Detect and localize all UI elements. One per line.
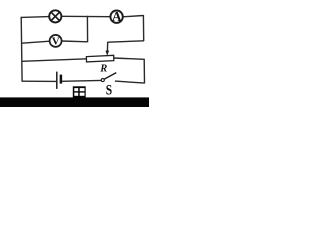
wire right vertical upper (ammeter branch down) xyxy=(142,15,144,41)
rheostat R body xyxy=(86,55,113,62)
svg-text:R: R xyxy=(99,63,107,74)
wire rheostat left xyxy=(22,59,87,62)
svg-text:S: S xyxy=(106,82,112,98)
rheostat wiper arrow xyxy=(106,51,110,56)
lamp L (circle with X) xyxy=(49,10,61,22)
wire bottom-left (corner to battery) xyxy=(22,80,57,82)
wire voltmeter right xyxy=(61,40,87,43)
switch S pivot xyxy=(101,79,104,82)
wire ammeter to top-right corner xyxy=(123,16,143,17)
switch S blade xyxy=(104,73,116,80)
node A (voltmeter branch junction on top wire) xyxy=(87,16,89,17)
wire wiper vertical xyxy=(106,42,108,52)
ammeter A xyxy=(110,9,122,24)
battery long plate (+) xyxy=(56,72,58,89)
bottom black bar xyxy=(0,97,149,107)
wire horizontal to wiper xyxy=(108,41,144,42)
wire top-left (corner to lamp) xyxy=(21,16,49,19)
wire switch right xyxy=(115,81,145,83)
wire voltmeter branch vertical xyxy=(86,16,88,42)
wire battery to switch xyxy=(62,79,102,82)
svg-text:A: A xyxy=(112,9,122,24)
watermark grid icon xyxy=(73,86,86,98)
voltmeter V xyxy=(50,35,62,48)
battery short plate (-) xyxy=(60,75,63,84)
wire lamp to ammeter xyxy=(62,15,111,17)
wire rheostat right xyxy=(113,58,144,59)
wire left vertical xyxy=(20,17,23,82)
wire right vertical lower xyxy=(143,59,145,83)
svg-text:V: V xyxy=(52,35,60,47)
wire voltmeter left xyxy=(22,41,50,43)
